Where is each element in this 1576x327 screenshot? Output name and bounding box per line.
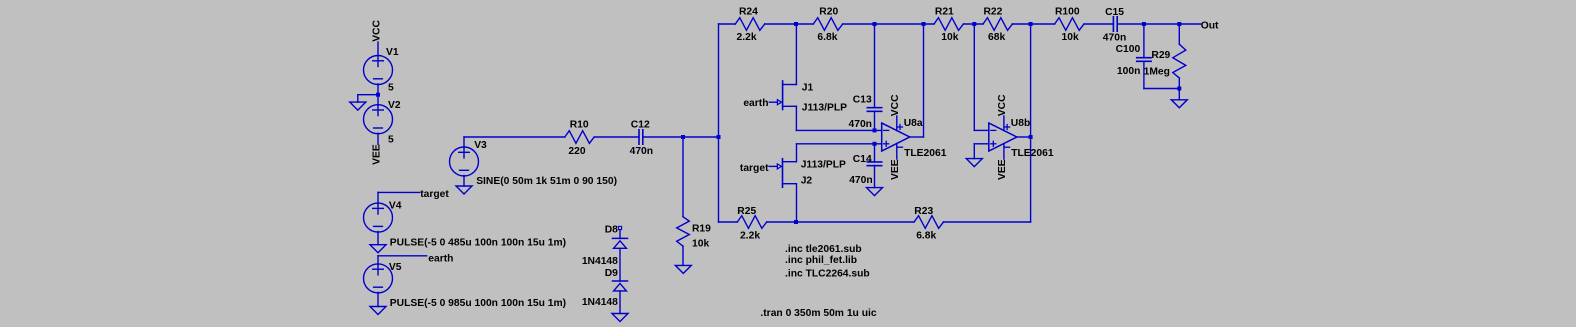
svg-text:100n: 100n xyxy=(1117,66,1140,77)
svg-text:C14: C14 xyxy=(853,154,872,165)
svg-text:TLE2061: TLE2061 xyxy=(1011,148,1054,159)
svg-text:1Meg: 1Meg xyxy=(1144,67,1170,78)
svg-text:V3: V3 xyxy=(474,140,487,151)
svg-text:5: 5 xyxy=(388,135,394,146)
svg-text:target: target xyxy=(740,163,769,174)
svg-text:earth: earth xyxy=(428,253,453,264)
svg-text:10k: 10k xyxy=(941,32,958,43)
svg-text:VEE: VEE xyxy=(372,144,383,165)
svg-text:TLE2061: TLE2061 xyxy=(904,148,947,159)
svg-text:R22: R22 xyxy=(984,7,1003,18)
svg-text:U8b: U8b xyxy=(1011,118,1030,129)
svg-text:V5: V5 xyxy=(389,262,402,273)
svg-text:R29: R29 xyxy=(1151,50,1170,61)
svg-text:J1: J1 xyxy=(802,83,814,94)
svg-text:1N4148: 1N4148 xyxy=(582,256,618,267)
svg-text:R20: R20 xyxy=(819,7,838,18)
svg-text:earth: earth xyxy=(743,98,768,109)
svg-text:6.8k: 6.8k xyxy=(817,32,837,43)
svg-text:68k: 68k xyxy=(988,32,1005,43)
svg-text:10k: 10k xyxy=(692,239,709,250)
svg-text:VEE: VEE xyxy=(890,159,901,180)
svg-text:R10: R10 xyxy=(570,120,589,131)
svg-text:VCC: VCC xyxy=(890,94,901,116)
svg-text:470n: 470n xyxy=(630,146,653,157)
svg-text:R23: R23 xyxy=(914,206,933,217)
svg-text:470n: 470n xyxy=(1103,33,1126,44)
svg-text:.inc TLC2264.sub: .inc TLC2264.sub xyxy=(785,269,870,280)
svg-text:R24: R24 xyxy=(739,7,758,18)
svg-text:VCC: VCC xyxy=(372,19,383,41)
svg-text:C15: C15 xyxy=(1105,7,1124,18)
svg-text:J113/PLP: J113/PLP xyxy=(802,103,847,114)
svg-text:D8: D8 xyxy=(605,225,618,236)
svg-text:PULSE(-5 0 985u 100n 100n 15u: PULSE(-5 0 985u 100n 100n 15u 1m) xyxy=(390,298,566,309)
svg-text:470n: 470n xyxy=(849,175,872,186)
svg-text:6.8k: 6.8k xyxy=(916,231,936,242)
svg-text:VEE: VEE xyxy=(997,159,1008,180)
svg-text:2.2k: 2.2k xyxy=(737,32,757,43)
svg-text:.inc tle2061.sub: .inc tle2061.sub xyxy=(785,244,862,255)
svg-text:R25: R25 xyxy=(737,206,756,217)
svg-text:2.2k: 2.2k xyxy=(740,231,760,242)
svg-text:1N4148: 1N4148 xyxy=(582,297,618,308)
svg-text:C100: C100 xyxy=(1116,44,1141,55)
svg-text:J113/PLP: J113/PLP xyxy=(801,160,846,171)
svg-text:C12: C12 xyxy=(631,120,650,131)
svg-text:VCC: VCC xyxy=(997,94,1008,116)
svg-text:V4: V4 xyxy=(389,201,402,212)
svg-text:SINE(0 50m 1k 51m 0 90 150): SINE(0 50m 1k 51m 0 90 150) xyxy=(476,176,617,187)
svg-text:PULSE(-5 0 485u 100n 100n 15u: PULSE(-5 0 485u 100n 100n 15u 1m) xyxy=(390,238,566,249)
svg-text:V2: V2 xyxy=(388,100,401,111)
svg-text:5: 5 xyxy=(388,83,394,94)
svg-text:R100: R100 xyxy=(1055,7,1080,18)
svg-text:470n: 470n xyxy=(849,119,872,130)
svg-text:V1: V1 xyxy=(386,47,399,58)
svg-text:R19: R19 xyxy=(692,224,711,235)
svg-text:U8a: U8a xyxy=(904,118,923,129)
svg-text:220: 220 xyxy=(568,146,585,157)
svg-text:10k: 10k xyxy=(1062,32,1079,43)
svg-text:D9: D9 xyxy=(605,268,618,279)
svg-text:C13: C13 xyxy=(853,95,872,106)
svg-text:.inc phil_fet.lib: .inc phil_fet.lib xyxy=(785,255,857,266)
svg-text:target: target xyxy=(420,189,449,200)
svg-text:R21: R21 xyxy=(935,7,954,18)
svg-text:.tran 0 350m 50m 1u uic: .tran 0 350m 50m 1u uic xyxy=(760,308,876,319)
svg-text:J2: J2 xyxy=(801,176,813,187)
svg-text:Out: Out xyxy=(1201,21,1219,32)
